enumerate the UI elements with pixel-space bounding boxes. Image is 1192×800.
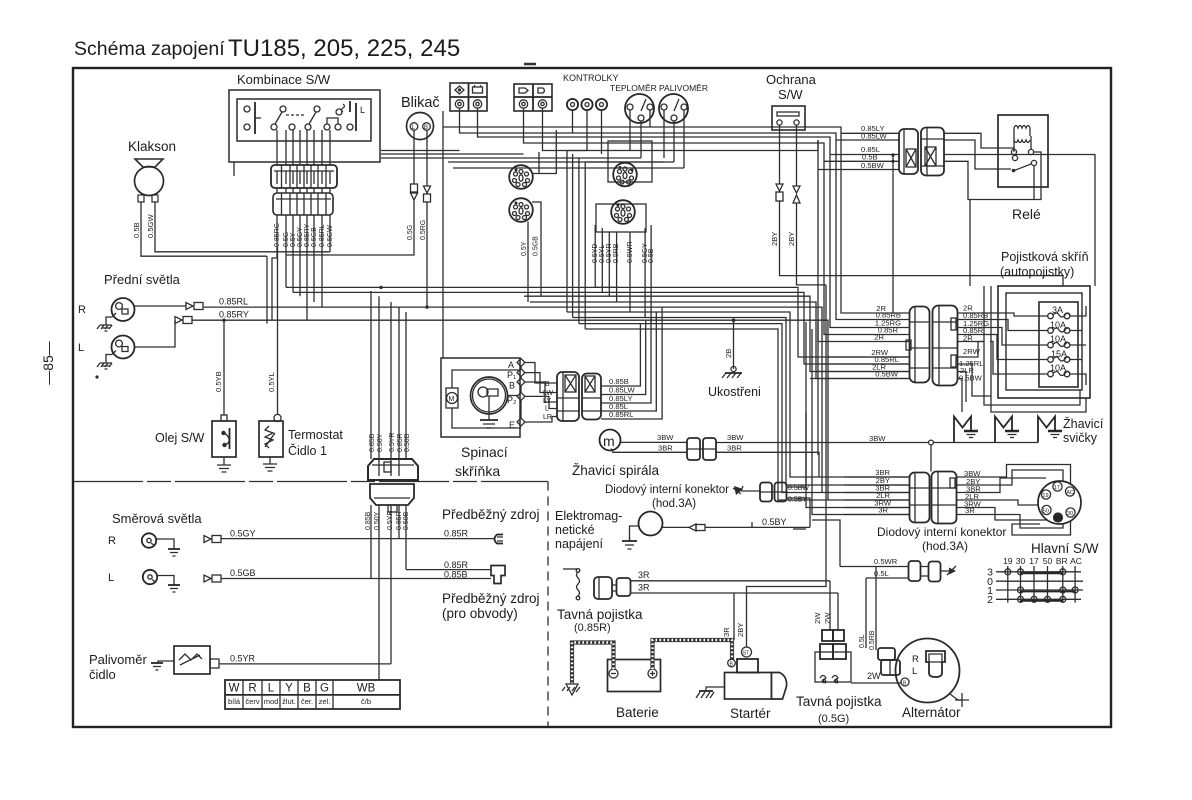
svg-text:50: 50 <box>1043 509 1049 515</box>
svg-text:0.5YR: 0.5YR <box>389 433 396 452</box>
svg-text:B: B <box>509 381 515 391</box>
svg-text:0.85R: 0.85R <box>396 511 403 530</box>
terminal diamonds <box>517 359 525 367</box>
combination switch Kombinace S/W <box>229 72 380 162</box>
colour code table <box>225 680 400 709</box>
svg-text:3BR: 3BR <box>658 444 673 453</box>
svg-text:Relé: Relé <box>1012 206 1041 222</box>
svg-text:0.5GB: 0.5GB <box>533 236 540 256</box>
svg-text:3R: 3R <box>722 627 731 637</box>
svg-text:Přední světla: Přední světla <box>104 272 181 287</box>
svg-text:—85—: —85— <box>40 341 56 385</box>
wire 0.85RL <box>135 305 187 307</box>
svg-text:3R: 3R <box>638 570 650 580</box>
svg-text:0.5YB: 0.5YB <box>214 371 223 392</box>
svg-text:čidlo: čidlo <box>89 667 116 682</box>
svg-text:0.5GW: 0.5GW <box>327 225 334 247</box>
svg-text:0.50Y: 0.50Y <box>374 511 381 530</box>
svg-text:0.5GW: 0.5GW <box>146 214 155 238</box>
bundle connector F1 <box>368 459 418 480</box>
ground of ignition switch <box>488 414 490 420</box>
indicator lamps KONTROLKY <box>563 73 619 110</box>
svg-text:17: 17 <box>1054 485 1060 491</box>
stray dot <box>95 375 98 378</box>
svg-text:Čidlo 1: Čidlo 1 <box>288 443 327 458</box>
svg-text:Olej S/W: Olej S/W <box>155 431 205 445</box>
svg-text:0.5RG: 0.5RG <box>420 220 427 240</box>
svg-text:Kombinace S/W: Kombinace S/W <box>237 72 331 87</box>
svg-text:PALIVOMĚR: PALIVOMĚR <box>659 83 708 93</box>
wire 0.5G from flasher <box>413 130 415 184</box>
bundle connector F2 <box>370 484 414 512</box>
svg-text:m: m <box>603 433 615 449</box>
connector I1 <box>910 473 930 523</box>
svg-text:0.5GB: 0.5GB <box>311 227 318 247</box>
svg-text:0.5YR: 0.5YR <box>606 244 613 263</box>
svg-text:17: 17 <box>1029 556 1039 566</box>
svg-text:0.85RL: 0.85RL <box>219 297 248 307</box>
svg-text:0.50B: 0.50B <box>404 433 411 452</box>
svg-text:bílá: bílá <box>228 697 241 706</box>
svg-text:W: W <box>229 683 240 695</box>
battery negative cable to ground <box>572 643 614 685</box>
svg-text:3BW: 3BW <box>869 434 886 443</box>
wires 0.5BW 0.5BY <box>787 412 807 487</box>
wire 0.85R second <box>406 569 491 571</box>
svg-text:Spinací: Spinací <box>461 444 508 460</box>
svg-text:3BR: 3BR <box>727 444 742 453</box>
svg-text:0.85B: 0.85B <box>444 570 468 580</box>
svg-text:2B: 2B <box>724 349 733 358</box>
svg-text:(0.85R): (0.85R) <box>574 622 611 634</box>
ground L <box>100 363 112 369</box>
svg-text:2W: 2W <box>813 612 822 624</box>
svg-text:0.5YR: 0.5YR <box>230 654 256 664</box>
top bus wires <box>442 111 444 358</box>
wires to routing loops <box>957 476 986 478</box>
svg-text:Elektromag-: Elektromag- <box>555 509 622 523</box>
fusible link Tavna pojistka 0.85R <box>563 569 631 600</box>
svg-text:Termostat: Termostat <box>288 428 343 442</box>
Hlavni S/W switch matrix <box>1003 556 1082 566</box>
svg-text:0.85RL: 0.85RL <box>319 224 326 247</box>
wire from 3BW node down to connector <box>930 445 932 472</box>
svg-text:R: R <box>912 654 919 665</box>
svg-text:mod: mod <box>264 697 279 706</box>
wire 3BW to glow plugs <box>716 442 929 444</box>
svg-text:Y: Y <box>285 683 293 695</box>
connector below switch <box>271 165 337 188</box>
fuse box Pojistkova skrin <box>998 250 1090 398</box>
wire 0.5Y <box>292 215 294 292</box>
wire 0.85RY <box>306 215 308 320</box>
svg-text:0.5YR: 0.5YR <box>387 511 394 530</box>
svg-text:(autopojistky): (autopojistky) <box>1000 265 1074 279</box>
svg-text:Žhavicí: Žhavicí <box>1063 416 1104 431</box>
wire 0.5YB <box>223 320 225 415</box>
wire 2W to alternator <box>851 682 901 684</box>
relay output wires <box>970 152 1041 286</box>
svg-text:TEPLOMĚR: TEPLOMĚR <box>610 83 657 93</box>
svg-text:WB: WB <box>357 683 376 695</box>
wires into connector D1 <box>858 312 909 314</box>
svg-text:0.5BY: 0.5BY <box>762 517 787 527</box>
svg-text:0.85R: 0.85R <box>444 560 469 570</box>
svg-text:0.5YL: 0.5YL <box>267 372 276 392</box>
svg-text:LY: LY <box>543 398 551 405</box>
svg-text:0.85RG: 0.85RG <box>274 223 281 247</box>
svg-text:Diodový interní konektor: Diodový interní konektor <box>605 484 729 496</box>
svg-text:L: L <box>545 406 549 413</box>
round connector RC1 <box>509 165 533 189</box>
fusible link connector C2 <box>921 128 944 176</box>
wire 3BR below coil <box>611 449 687 453</box>
svg-text:0.5L: 0.5L <box>859 634 866 648</box>
svg-text:0.5YD: 0.5YD <box>592 244 599 263</box>
svg-text:3R: 3R <box>638 583 650 593</box>
svg-text:0.85R: 0.85R <box>444 529 469 539</box>
glow coil Zhavici spirala <box>600 430 621 451</box>
starter Starter <box>725 647 787 699</box>
wire 0.5B from horn <box>141 202 267 256</box>
wire 3R to starter <box>733 593 735 640</box>
svg-text:P₁: P₁ <box>507 370 516 380</box>
ground R <box>100 325 112 331</box>
svg-text:2BY: 2BY <box>770 232 779 246</box>
svg-text:Klakson: Klakson <box>128 139 176 154</box>
round connector RC2 <box>509 198 533 222</box>
round connector RC3 with box <box>608 141 652 186</box>
border frame <box>73 68 1111 727</box>
fork terminal <box>495 535 504 544</box>
temperature gauge TEPLOMER <box>610 83 657 123</box>
alternator Alternator <box>896 639 960 703</box>
main horizontal wiring bus band <box>286 287 909 357</box>
svg-text:Baterie: Baterie <box>616 705 659 720</box>
svg-text:0.85LW: 0.85LW <box>861 132 887 141</box>
misc right bus verticals <box>793 528 806 530</box>
wire 0.5GB <box>313 215 315 302</box>
svg-text:0.5WR: 0.5WR <box>627 242 634 263</box>
connector pair G1 G2 <box>687 438 700 460</box>
svg-text:(hod.3A): (hod.3A) <box>652 498 696 510</box>
flasher Blikac <box>401 95 440 140</box>
wire 0.5RG from flasher <box>426 130 428 186</box>
svg-text:zel.: zel. <box>319 697 331 706</box>
wire 0.5GB <box>204 575 211 582</box>
connector block A (turn/charge indicators) <box>450 83 487 111</box>
verticals to lower connector rows <box>806 322 909 508</box>
svg-text:L: L <box>912 666 917 677</box>
wires below RC4 <box>594 225 596 287</box>
svg-text:0.5BY: 0.5BY <box>788 497 807 504</box>
output wires 0.85B group <box>601 324 640 386</box>
oil switch Olej S/W <box>155 415 236 457</box>
wires 0.5L 0.5RB down <box>865 578 867 648</box>
svg-text:S/W: S/W <box>778 87 803 102</box>
wire 3BR to lower rows <box>716 452 819 477</box>
connector D2 <box>933 306 958 386</box>
svg-text:0.5Y: 0.5Y <box>290 232 297 247</box>
lamp L <box>78 336 135 364</box>
svg-text:Startér: Startér <box>730 706 771 721</box>
wires 3R <box>631 580 831 582</box>
starter ground <box>706 687 725 691</box>
wire 0.5GW <box>329 215 331 252</box>
bundle lower wires <box>370 505 372 579</box>
svg-text:0.5YL: 0.5YL <box>599 245 606 263</box>
section divider dashed <box>73 481 548 483</box>
svg-text:19: 19 <box>1042 493 1048 499</box>
wire 3BW <box>621 441 688 443</box>
svg-text:0.85B: 0.85B <box>365 511 372 530</box>
fuel gauge PALIVOMER <box>659 83 708 123</box>
svg-text:Předběžný zdroj: Předběžný zdroj <box>442 507 540 522</box>
svg-text:BR: BR <box>1054 516 1062 522</box>
svg-text:KONTROLKY: KONTROLKY <box>563 73 619 83</box>
connector E2 <box>582 374 601 420</box>
svg-text:0.5G: 0.5G <box>283 232 290 247</box>
routing loop under fuse box <box>990 286 992 398</box>
svg-text:0.5B: 0.5B <box>648 248 655 263</box>
battery positive cable to starter <box>653 640 733 669</box>
svg-text:0.5RB: 0.5RB <box>613 243 620 263</box>
svg-text:2W: 2W <box>867 671 881 681</box>
svg-text:G: G <box>320 683 329 695</box>
wires C2 to relay <box>944 133 1014 152</box>
wires ignition to connector E1 <box>525 363 558 384</box>
svg-text:0.85RY: 0.85RY <box>219 310 249 320</box>
svg-text:Předběžný zdroj: Předběžný zdroj <box>442 591 540 606</box>
battery Baterie <box>608 660 661 692</box>
svg-text:L: L <box>108 572 114 584</box>
thermostat sensor Termostat Cidlo 1 <box>259 414 283 457</box>
svg-text:0.5B: 0.5B <box>132 222 141 238</box>
svg-text:50: 50 <box>1043 556 1053 566</box>
svg-text:0.85RL: 0.85RL <box>609 410 634 419</box>
fuse box internal routing <box>990 313 1048 316</box>
svg-text:2: 2 <box>987 594 993 606</box>
svg-text:TU185, 205, 225, 245: TU185, 205, 225, 245 <box>228 35 460 62</box>
diode symbol <box>734 486 743 495</box>
svg-text:(pro obvody): (pro obvody) <box>442 606 518 621</box>
svg-text:0.5G: 0.5G <box>407 225 414 240</box>
svg-text:A: A <box>508 360 514 370</box>
svg-text:žlut.: žlut. <box>282 697 296 706</box>
wire 0.5G <box>285 215 287 287</box>
grounding point Ukostreni <box>733 320 735 369</box>
svg-text:B: B <box>303 683 311 695</box>
down wires from LY group to mid connector <box>841 168 858 313</box>
wire 0.85RG <box>272 215 277 320</box>
svg-text:3BW: 3BW <box>727 433 744 442</box>
ignition switch Spinaci skrinka <box>441 358 520 437</box>
svg-text:0.5BW: 0.5BW <box>861 161 885 170</box>
svg-text:Směrová světla: Směrová světla <box>112 511 202 526</box>
svg-text:L: L <box>360 105 365 115</box>
connector E1 <box>557 372 579 421</box>
svg-text:Žhavicí spirála: Žhavicí spirála <box>572 463 660 478</box>
wire 0.85RY <box>135 320 176 347</box>
svg-text:2W: 2W <box>823 612 832 624</box>
wires from indicator blocks and lamps to bus <box>459 108 461 127</box>
connector I2 <box>932 472 957 524</box>
wire 0.5GW from horn <box>155 202 330 252</box>
wires below RC2 <box>532 130 556 174</box>
box terminal <box>491 566 505 584</box>
svg-text:Pojistková skříň: Pojistková skříň <box>1001 250 1089 264</box>
svg-text:M: M <box>449 396 455 403</box>
round connector Hlavni <box>1038 481 1081 524</box>
wires D2 to fuse box <box>958 312 991 314</box>
svg-text:0.5BW: 0.5BW <box>788 485 809 492</box>
svg-text:Hlavní S/W: Hlavní S/W <box>1031 541 1099 556</box>
svg-text:LW: LW <box>543 390 553 397</box>
svg-text:Schéma zapojení: Schéma zapojení <box>74 38 225 60</box>
svg-text:0.85RY: 0.85RY <box>304 223 311 247</box>
wire 0.5B drop to bus <box>266 256 268 323</box>
svg-text:0.5WR: 0.5WR <box>874 557 898 566</box>
mid-right connector rows labels left <box>871 304 901 379</box>
svg-text:0.50Y: 0.50Y <box>377 433 384 452</box>
wire 0.5YR <box>219 663 391 665</box>
svg-text:Palivoměr: Palivoměr <box>89 652 147 667</box>
lamp R <box>78 298 135 325</box>
wire 2BY left <box>779 125 781 184</box>
wires into I1 <box>844 476 909 478</box>
svg-text:červ: červ <box>245 697 259 706</box>
svg-text:3BW: 3BW <box>657 433 674 442</box>
relay Rele <box>998 115 1048 222</box>
lower right connector rows labels <box>874 468 892 515</box>
svg-text:ST: ST <box>743 651 749 657</box>
svg-text:R: R <box>108 535 116 547</box>
svg-text:2BY: 2BY <box>787 232 796 246</box>
small connector to alternator <box>878 648 895 660</box>
svg-text:svičky: svičky <box>1063 431 1098 445</box>
svg-text:(0.5G): (0.5G) <box>818 713 849 725</box>
round connector RC4 with box <box>596 200 646 232</box>
svg-text:Ukostřeni: Ukostřeni <box>708 385 761 399</box>
svg-text:B: B <box>545 381 550 388</box>
svg-text:AC: AC <box>1070 556 1082 566</box>
svg-text:0.5Y: 0.5Y <box>521 241 528 256</box>
svg-text:skříňka: skříňka <box>455 463 500 479</box>
svg-text:č/b: č/b <box>361 697 371 706</box>
svg-text:0.5GY: 0.5GY <box>230 529 256 539</box>
connector 2 below switch <box>273 193 333 215</box>
svg-text:0.85B: 0.85B <box>369 433 376 452</box>
svg-text:L: L <box>268 683 275 695</box>
svg-text:0.5RB: 0.5RB <box>869 630 876 650</box>
routing loops to round connector <box>985 465 1071 536</box>
wire 2BY right <box>796 125 798 186</box>
glow plugs Zhavici svicky <box>954 417 1055 443</box>
wire 2BY to starter solenoid <box>747 285 827 647</box>
svg-text:napájení: napájení <box>555 537 603 551</box>
svg-text:19: 19 <box>1003 556 1013 566</box>
svg-text:Blikač: Blikač <box>401 95 440 111</box>
svg-text:Tavná pojistka: Tavná pojistka <box>796 694 882 709</box>
svg-text:30: 30 <box>1016 556 1026 566</box>
svg-text:R: R <box>248 683 256 695</box>
connector block B (lamp indicators) <box>514 84 552 111</box>
wire 0.5YL <box>277 247 279 415</box>
fusible link connector C1 <box>899 129 918 174</box>
svg-text:R: R <box>78 304 86 316</box>
svg-text:P₂: P₂ <box>507 395 517 405</box>
svg-text:LR: LR <box>543 414 552 421</box>
connector D1 <box>906 307 930 383</box>
svg-text:BR: BR <box>1056 556 1068 566</box>
svg-text:Tavná pojistka: Tavná pojistka <box>557 607 643 622</box>
svg-text:0.5GY: 0.5GY <box>297 227 304 247</box>
svg-text:0.85R: 0.85R <box>397 433 404 452</box>
svg-text:Ochrana: Ochrana <box>766 72 817 87</box>
wires switch to connector <box>276 130 278 165</box>
svg-text:L: L <box>78 342 84 354</box>
svg-text:(hod.3A): (hod.3A) <box>922 539 968 553</box>
wire 0.5GY <box>299 215 301 296</box>
svg-text:2BY: 2BY <box>736 623 745 637</box>
connector pair H1 H2 <box>760 483 772 502</box>
svg-text:Diodový interní konektor: Diodový interní konektor <box>877 525 1006 539</box>
center wire bundle <box>370 291 372 459</box>
wire 0.85RL <box>321 215 323 307</box>
svg-text:netické: netické <box>555 523 595 537</box>
svg-text:Alternátor: Alternátor <box>902 705 961 720</box>
svg-text:čer.: čer. <box>301 697 313 706</box>
svg-text:0.50B: 0.50B <box>403 511 410 530</box>
wire 0.5GY <box>204 536 211 543</box>
svg-text:AC: AC <box>1066 490 1074 496</box>
wires from gauges down-left to bus <box>566 151 568 313</box>
wire 0.5BY bottom <box>663 526 690 528</box>
svg-text:0.5GB: 0.5GB <box>230 568 256 578</box>
protection switch Ochrana S/W <box>766 72 817 130</box>
horn Klakson <box>128 139 176 202</box>
svg-text:30: 30 <box>1067 511 1073 517</box>
